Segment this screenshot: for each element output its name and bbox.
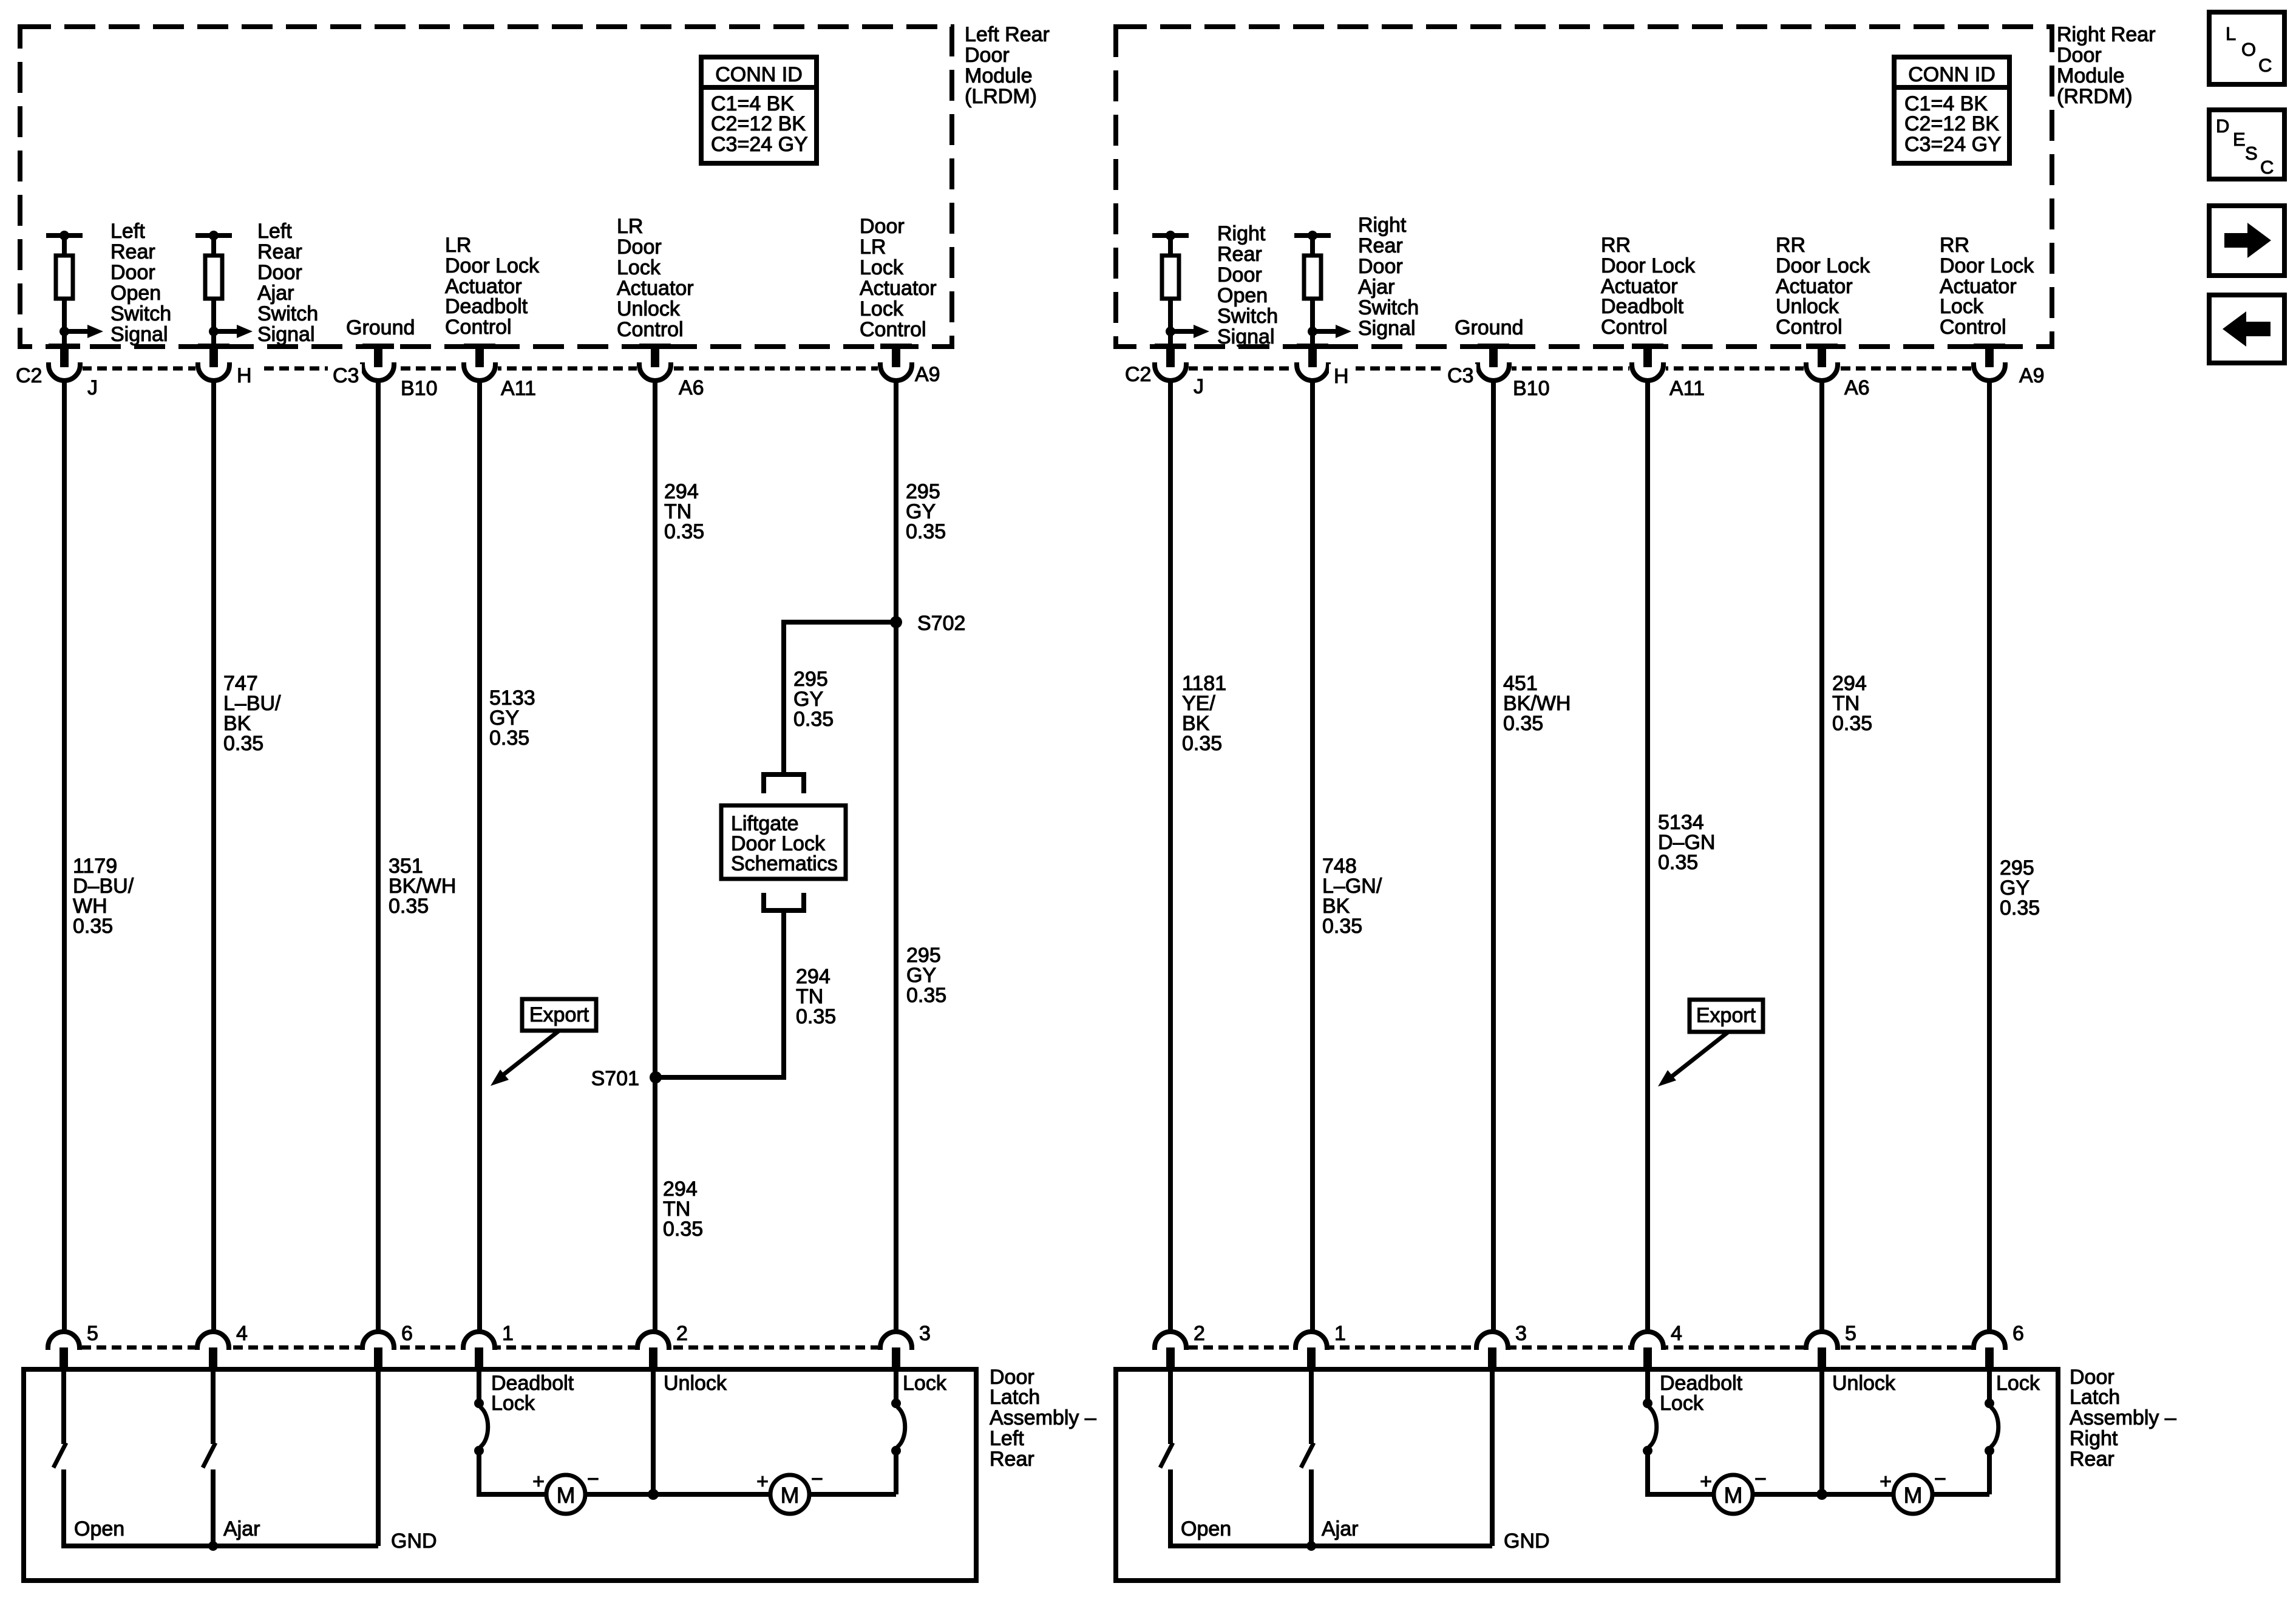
svg-text:C3: C3	[333, 364, 359, 387]
label: Door Latch Assembly - Left Rear	[990, 1366, 1096, 1471]
pin A11 of C3 (RRDM)	[1629, 344, 1705, 400]
svg-text:Right: Right	[2070, 1427, 2118, 1450]
label: Lock (right latch)	[1996, 1372, 2040, 1395]
switch: deadbolt lock (right latch)	[1643, 1369, 1657, 1456]
label: 351 BK/WH 0.35	[389, 855, 456, 918]
svg-text:M: M	[557, 1483, 576, 1508]
svg-text:0.35: 0.35	[793, 708, 834, 731]
svg-text:Door Lock: Door Lock	[445, 254, 540, 277]
svg-text:Switch: Switch	[257, 302, 318, 325]
CONN ID table (LRDM)	[701, 57, 817, 163]
label: Right Rear Door Open Switch Signal	[1217, 222, 1278, 348]
svg-text:C2=12 BK: C2=12 BK	[1904, 112, 1999, 135]
svg-text:Switch: Switch	[1217, 305, 1278, 328]
latch pin 4	[195, 1322, 248, 1371]
svg-text:Door: Door	[110, 261, 155, 284]
wire: liftgate branch to S701	[656, 910, 784, 1077]
label: Left Rear Door Ajar Switch Signal	[257, 220, 318, 346]
svg-text:Assembly –: Assembly –	[2070, 1406, 2176, 1429]
svg-text:RR: RR	[1940, 234, 1969, 257]
svg-text:0.35: 0.35	[489, 727, 529, 750]
svg-text:A9: A9	[2019, 364, 2045, 387]
svg-text:0.35: 0.35	[223, 732, 263, 755]
svg-text:Lock: Lock	[1940, 295, 1984, 318]
svg-text:Left: Left	[257, 220, 292, 243]
svg-text:Open: Open	[110, 282, 161, 305]
connector dashed line (right latch assembly)	[1173, 1346, 1987, 1350]
latch pin 3	[878, 1322, 931, 1371]
wire 294 TN (pin A6 to latch pin 5)	[1819, 381, 1824, 1334]
latch pin 2	[635, 1322, 688, 1371]
motor: lock motor (right)	[1880, 1468, 1946, 1514]
wire: S702 branch to liftgate connector	[784, 622, 896, 772]
label: RR Door Lock Actuator Unlock Control	[1776, 234, 1870, 339]
svg-text:Ajar: Ajar	[1358, 276, 1394, 299]
svg-text:Door Lock: Door Lock	[1776, 254, 1870, 277]
wire 1179 D-BU/WH (pin J to latch pin 5)	[62, 381, 67, 1334]
latch pin 1 (right)	[1293, 1322, 1346, 1371]
svg-text:−: −	[587, 1468, 599, 1491]
svg-text:Rear: Rear	[1358, 234, 1403, 257]
label: Deadbolt Lock (right)	[1660, 1372, 1743, 1415]
component box: Door Latch Assembly - Right Rear	[1116, 1369, 2058, 1581]
motor: deadbolt/unlock motor (right)	[1700, 1468, 1767, 1514]
label: 294 TN 0.35 (upper)	[664, 480, 704, 543]
svg-text:Actuator: Actuator	[617, 277, 694, 300]
svg-text:Schematics: Schematics	[731, 852, 838, 875]
switch: door open (left latch)	[53, 1369, 66, 1546]
svg-text:M: M	[1904, 1483, 1923, 1508]
svg-text:GND: GND	[1504, 1530, 1550, 1553]
svg-text:+: +	[1880, 1470, 1892, 1493]
svg-text:Export: Export	[1696, 1004, 1756, 1027]
svg-text:RR: RR	[1601, 234, 1631, 257]
label: GND	[391, 1530, 437, 1553]
svg-text:H: H	[1334, 365, 1349, 388]
switch: right rear door open switch (resistive)	[1152, 231, 1209, 344]
svg-text:Unlock: Unlock	[664, 1372, 727, 1395]
svg-text:LR: LR	[445, 234, 471, 257]
svg-text:M: M	[1724, 1483, 1743, 1508]
svg-text:4: 4	[236, 1322, 248, 1345]
svg-text:Ajar: Ajar	[257, 282, 294, 305]
svg-text:+: +	[1700, 1470, 1712, 1493]
pin A11 of C3 (LRDM)	[461, 344, 536, 400]
svg-text:E: E	[2233, 129, 2246, 150]
pin A6 of C3 (LRDM)	[637, 344, 704, 399]
label: Right Rear Door Module (RRDM)	[2057, 23, 2156, 108]
svg-text:M: M	[781, 1483, 800, 1508]
svg-text:C3=24 GY: C3=24 GY	[711, 133, 808, 156]
svg-text:Control: Control	[1940, 316, 2006, 339]
connector dashed line C2/C3 (RRDM bottom)	[1173, 367, 1987, 371]
svg-text:Lock: Lock	[617, 256, 661, 279]
svg-text:6: 6	[2012, 1322, 2024, 1345]
wire 747 L-BU/BK (pin H to latch pin 4)	[211, 381, 216, 1334]
svg-text:Unlock: Unlock	[617, 297, 681, 320]
svg-text:(LRDM): (LRDM)	[965, 85, 1037, 108]
pin A6 of C3 (RRDM)	[1804, 344, 1870, 399]
icon box: LOC	[2209, 12, 2284, 84]
svg-text:Open: Open	[74, 1517, 124, 1540]
icon box: arrow left	[2209, 295, 2284, 363]
svg-text:Module: Module	[965, 64, 1033, 87]
motor: lock motor (left)	[756, 1468, 823, 1514]
junction S701	[591, 1067, 662, 1090]
svg-text:A11: A11	[501, 377, 536, 400]
label: Ground (RRDM)	[1455, 316, 1523, 339]
svg-text:Switch: Switch	[110, 302, 171, 325]
label: 1179 D-BU/WH 0.35	[73, 855, 134, 938]
pin B10 of C3 (RRDM), Ground	[1442, 344, 1550, 400]
svg-text:Actuator: Actuator	[860, 277, 937, 300]
latch pin 6	[360, 1322, 413, 1371]
switch: lock (left latch)	[891, 1369, 905, 1494]
svg-text:A6: A6	[679, 376, 704, 399]
switch: door ajar (left latch)	[203, 1369, 216, 1546]
svg-text:Door: Door	[965, 44, 1010, 67]
svg-text:+: +	[756, 1470, 769, 1493]
svg-text:Control: Control	[617, 318, 684, 341]
wire 1181 YE/BK (pin J to latch pin 2)	[1168, 381, 1173, 1334]
switch: door ajar (right latch)	[1301, 1369, 1314, 1546]
wire 295 GY (pin A9 to latch pin 3)	[894, 381, 898, 1334]
svg-text:(RRDM): (RRDM)	[2057, 85, 2133, 108]
icon box: arrow right	[2209, 206, 2284, 276]
svg-text:2: 2	[1194, 1322, 1205, 1345]
label: 294 TN 0.35 (right)	[1832, 672, 1872, 735]
svg-text:Rear: Rear	[990, 1448, 1034, 1471]
export callout (left)	[491, 999, 596, 1086]
svg-text:Lock: Lock	[1996, 1372, 2040, 1395]
module box: Left Rear Door Module (LRDM), dashed outline	[20, 27, 952, 347]
wire 295 GY (pin A9 to latch pin 6)	[1987, 381, 1992, 1334]
svg-text:RR: RR	[1776, 234, 1805, 257]
svg-text:B10: B10	[401, 377, 438, 400]
svg-text:Rear: Rear	[257, 240, 302, 263]
label: Door Latch Assembly - Right Rear	[2070, 1366, 2176, 1471]
label: 295 GY 0.35 (upper)	[906, 480, 946, 543]
pin H of C2 (LRDM)	[195, 344, 259, 387]
label: 295 GY 0.35 (below S702)	[906, 944, 946, 1007]
svg-text:0.35: 0.35	[2000, 896, 2040, 920]
pin J of C2 (RRDM)	[1125, 344, 1204, 398]
svg-text:Door: Door	[257, 261, 302, 284]
svg-text:C3: C3	[1447, 364, 1473, 387]
latch pin 2 (right)	[1152, 1322, 1205, 1371]
latch pin 5 (right)	[1804, 1322, 1856, 1371]
icon box: DESC	[2209, 110, 2284, 179]
connector dashed line (left latch assembly)	[66, 1346, 894, 1350]
label: Lock (left latch)	[903, 1372, 947, 1395]
label: Ground	[346, 316, 415, 339]
svg-text:2: 2	[676, 1322, 688, 1345]
label: LR Door Lock Actuator Deadbolt Control	[445, 234, 540, 339]
svg-text:B10: B10	[1513, 377, 1550, 400]
svg-text:Lock: Lock	[903, 1372, 947, 1395]
switch: left rear door ajar switch (resistive)	[195, 231, 253, 344]
latch pin 6 (right)	[1971, 1322, 2024, 1371]
label: RR Door Lock Actuator Lock Control	[1940, 234, 2034, 339]
svg-text:Open: Open	[1217, 284, 1268, 307]
label: Door LR Lock Actuator Lock Control	[860, 215, 937, 341]
svg-text:Signal: Signal	[1358, 317, 1416, 340]
svg-text:0.35: 0.35	[1182, 732, 1222, 755]
svg-text:0.35: 0.35	[906, 520, 946, 543]
component box: Door Latch Assembly - Left Rear	[24, 1369, 976, 1581]
svg-text:0.35: 0.35	[1658, 851, 1698, 874]
label: Left Rear Door Open Switch Signal	[110, 220, 171, 346]
svg-text:Rear: Rear	[2070, 1448, 2114, 1471]
wire 5133 GY (pin A11 to latch pin 1)	[477, 381, 482, 1334]
svg-text:Door: Door	[1217, 263, 1262, 286]
svg-text:A11: A11	[1669, 377, 1705, 400]
svg-text:H: H	[237, 364, 252, 387]
label: 747 L-BU/BK 0.35	[223, 672, 281, 755]
svg-text:0.35: 0.35	[796, 1005, 836, 1028]
svg-text:Door: Door	[2057, 44, 2102, 67]
svg-text:Deadbolt: Deadbolt	[445, 295, 528, 318]
label: Right Rear Door Ajar Switch Signal	[1358, 214, 1419, 340]
svg-text:CONN ID: CONN ID	[715, 63, 803, 86]
svg-text:C: C	[2260, 157, 2274, 178]
svg-text:6: 6	[401, 1322, 413, 1345]
junction S702	[890, 612, 965, 635]
label: 451 BK/WH 0.35	[1503, 672, 1571, 735]
switch: right rear door ajar switch (resistive)	[1294, 231, 1351, 344]
svg-text:J: J	[1194, 375, 1204, 398]
svg-text:Signal: Signal	[257, 323, 315, 346]
svg-text:LR: LR	[860, 236, 886, 259]
svg-text:0.35: 0.35	[1832, 712, 1872, 735]
svg-text:Unlock: Unlock	[1776, 295, 1839, 318]
svg-text:Right Rear: Right Rear	[2057, 23, 2156, 46]
label: 748 L-GN/BK 0.35	[1322, 855, 1382, 938]
junction: unlock wire to motor bus (right)	[1816, 1489, 1827, 1500]
pin H of C2 (RRDM)	[1294, 344, 1356, 388]
label: 294 TN 0.35 (branch lower)	[796, 965, 836, 1028]
svg-text:0.35: 0.35	[73, 915, 113, 938]
label: Open	[74, 1517, 124, 1540]
svg-text:Rear: Rear	[110, 240, 155, 263]
label: 5134 D-GN 0.35	[1658, 811, 1715, 874]
svg-text:0.35: 0.35	[389, 895, 429, 918]
svg-text:−: −	[1754, 1468, 1767, 1491]
latch pin 3 (right)	[1474, 1322, 1527, 1371]
svg-text:−: −	[1934, 1468, 1946, 1491]
svg-text:Left: Left	[110, 220, 145, 243]
svg-text:J: J	[87, 376, 98, 399]
switch: left rear door open switch (resistive)	[46, 231, 103, 344]
svg-text:C2=12 BK: C2=12 BK	[711, 112, 806, 135]
svg-text:Open: Open	[1181, 1517, 1231, 1540]
svg-text:Right: Right	[1217, 222, 1266, 245]
svg-text:C3=24 GY: C3=24 GY	[1904, 133, 2002, 156]
label: Deadbolt Lock	[491, 1372, 574, 1415]
svg-text:Latch: Latch	[990, 1386, 1040, 1409]
switch: deadbolt lock (left latch)	[474, 1369, 488, 1456]
svg-text:Control: Control	[445, 316, 512, 339]
connector dashed line C2/C3 (LRDM bottom)	[67, 367, 894, 371]
svg-text:Deadbolt: Deadbolt	[1601, 295, 1684, 318]
svg-text:L: L	[2226, 23, 2236, 44]
svg-text:S701: S701	[591, 1067, 639, 1090]
svg-text:C: C	[2258, 55, 2272, 76]
svg-text:C2: C2	[1125, 363, 1151, 386]
svg-text:Ajar: Ajar	[223, 1517, 260, 1540]
svg-text:Control: Control	[1776, 316, 1843, 339]
label: 5133 GY 0.35	[489, 686, 535, 750]
svg-text:5: 5	[1845, 1322, 1856, 1345]
wire: deadbolt switch to motor bus	[479, 1451, 896, 1494]
svg-text:Module: Module	[2057, 64, 2125, 87]
switch: lock (right latch)	[1985, 1369, 1999, 1494]
junction: ajar to ground bus	[208, 1541, 218, 1551]
svg-text:Lock: Lock	[1660, 1392, 1704, 1415]
svg-text:−: −	[811, 1468, 823, 1491]
svg-text:3: 3	[919, 1322, 931, 1345]
svg-text:Lock: Lock	[860, 297, 904, 320]
svg-text:Signal: Signal	[1217, 325, 1275, 348]
svg-text:Lock: Lock	[491, 1392, 535, 1415]
ground bus wire (left latch)	[61, 1369, 378, 1546]
label: Unlock (right)	[1832, 1372, 1896, 1395]
svg-text:Door Lock: Door Lock	[1940, 254, 2034, 277]
wire: deadbolt switch to motor bus (right)	[1648, 1451, 1989, 1494]
off-page connector (bottom bracket)	[764, 893, 804, 910]
svg-text:Control: Control	[860, 318, 926, 341]
svg-text:+: +	[532, 1470, 545, 1493]
module box: Right Rear Door Module (RRDM), dashed outline	[1116, 27, 2052, 347]
svg-text:Export: Export	[529, 1003, 589, 1026]
label: Open (right)	[1181, 1517, 1231, 1540]
svg-text:Ajar: Ajar	[1322, 1517, 1358, 1540]
svg-text:A9: A9	[915, 363, 940, 386]
svg-text:0.35: 0.35	[1322, 915, 1362, 938]
wire 748 L-GN/BK (pin H to latch pin 1)	[1310, 381, 1315, 1334]
svg-text:LR: LR	[617, 215, 643, 238]
svg-text:Ground: Ground	[1455, 316, 1523, 339]
svg-text:Latch: Latch	[2070, 1386, 2120, 1409]
label: LR Door Lock Actuator Unlock Control	[617, 215, 694, 341]
svg-text:Right: Right	[1358, 214, 1407, 237]
label: 294 TN 0.35 (lower)	[663, 1178, 703, 1241]
svg-text:Control: Control	[1601, 316, 1668, 339]
svg-text:O: O	[2241, 39, 2256, 60]
svg-text:Switch: Switch	[1358, 296, 1419, 319]
svg-text:1: 1	[502, 1322, 514, 1345]
svg-text:0.35: 0.35	[1503, 712, 1543, 735]
reference box: Liftgate Door Lock Schematics	[721, 805, 846, 879]
svg-text:Lock: Lock	[860, 256, 904, 279]
pin B10 of C3 (LRDM), Ground	[328, 344, 438, 400]
switch: door open (right latch)	[1160, 1369, 1173, 1546]
svg-text:Door: Door	[617, 236, 662, 259]
svg-text:Ground: Ground	[346, 316, 415, 339]
label: 1181 YE/BK 0.35	[1182, 672, 1226, 755]
CONN ID table (RRDM)	[1894, 57, 2009, 163]
wire 451 BK/WH ground (pin B10 to latch pin 3)	[1491, 381, 1496, 1334]
svg-text:Door: Door	[860, 215, 905, 238]
svg-text:Signal: Signal	[110, 323, 168, 346]
wire 351 BK/WH ground (pin B10 to latch pin 6)	[376, 381, 381, 1334]
wire 5134 D-GN (pin A11 to latch pin 4)	[1645, 381, 1650, 1334]
label: Ajar (right)	[1322, 1517, 1358, 1540]
label: 295 GY 0.35 (right)	[2000, 856, 2040, 920]
junction: ajar to ground bus (right)	[1306, 1541, 1316, 1551]
latch pin 5	[46, 1322, 98, 1371]
svg-text:C2: C2	[16, 364, 42, 387]
svg-text:Door: Door	[1358, 255, 1403, 278]
svg-text:D: D	[2216, 115, 2229, 137]
latch pin 4 (right)	[1629, 1322, 1682, 1371]
off-page connector (top bracket)	[764, 774, 804, 793]
pin A9 of C3 (LRDM)	[878, 344, 940, 386]
label: Left Rear Door Module (LRDM)	[965, 23, 1050, 108]
pin A9 of C3 (RRDM)	[1971, 344, 2045, 387]
svg-text:Rear: Rear	[1217, 243, 1262, 266]
svg-text:S702: S702	[917, 612, 965, 635]
svg-text:Unlock: Unlock	[1832, 1372, 1896, 1395]
svg-text:Door Lock: Door Lock	[1601, 254, 1696, 277]
svg-text:3: 3	[1515, 1322, 1527, 1345]
svg-text:S: S	[2245, 143, 2258, 164]
label: Unlock	[664, 1372, 727, 1395]
svg-text:1: 1	[1334, 1322, 1346, 1345]
wire 294 TN (pin A6 to latch pin 2)	[653, 381, 657, 1334]
label: GND (right)	[1504, 1530, 1550, 1553]
svg-text:0.35: 0.35	[906, 984, 946, 1007]
label: 295 GY 0.35 (branch)	[793, 668, 834, 731]
label: Ajar	[223, 1517, 260, 1540]
export callout (right)	[1658, 1000, 1763, 1086]
motor: deadbolt/unlock motor (left)	[532, 1468, 599, 1514]
svg-text:0.35: 0.35	[664, 520, 704, 543]
svg-text:Left: Left	[990, 1427, 1024, 1450]
svg-text:A6: A6	[1844, 376, 1870, 399]
label: RR Door Lock Actuator Deadbolt Control	[1601, 234, 1696, 339]
ground bus wire (right latch)	[1168, 1369, 1492, 1546]
junction: unlock wire to motor bus	[648, 1489, 659, 1500]
wire: unlock control drop (right)	[1819, 1369, 1824, 1494]
svg-text:Left Rear: Left Rear	[965, 23, 1050, 46]
latch pin 1	[461, 1322, 514, 1371]
svg-text:5: 5	[87, 1322, 98, 1345]
svg-text:Assembly –: Assembly –	[990, 1406, 1096, 1429]
svg-text:GND: GND	[391, 1530, 437, 1553]
svg-text:4: 4	[1671, 1322, 1682, 1345]
svg-text:CONN ID: CONN ID	[1908, 63, 1995, 86]
svg-text:0.35: 0.35	[663, 1218, 703, 1241]
wire: unlock control drop	[651, 1369, 656, 1494]
pin J of C2 (LRDM)	[16, 344, 98, 399]
